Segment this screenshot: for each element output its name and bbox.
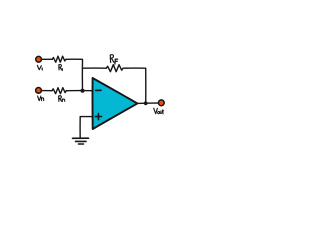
ground xyxy=(73,138,89,144)
resistor R1 xyxy=(52,56,66,62)
resistor label R1 xyxy=(59,65,63,71)
resistor Rn xyxy=(52,88,66,94)
wire plus input to ground xyxy=(80,117,93,138)
input terminal Vn xyxy=(36,88,42,94)
wire Rn to op-amp minus input xyxy=(66,90,92,92)
node label Vout xyxy=(154,108,164,114)
wire R1 to summing node vertical xyxy=(66,59,83,91)
resistor label Rn xyxy=(59,96,65,102)
op-amp minus pin mark xyxy=(96,89,101,91)
resistor RF xyxy=(106,65,123,72)
node label Vn xyxy=(38,96,44,101)
input terminal V1 xyxy=(36,56,42,62)
junction output node xyxy=(144,101,148,105)
node label V1 xyxy=(37,65,42,70)
junction summing node xyxy=(81,89,85,93)
feedback wire from summing node xyxy=(83,67,107,69)
wire RF to output node xyxy=(124,68,146,103)
op-amp U1 xyxy=(92,78,137,129)
output wire xyxy=(137,102,158,104)
resistor label RF xyxy=(110,55,118,64)
wire V1 to R1 xyxy=(42,58,52,60)
op-amp plus pin mark xyxy=(95,114,101,120)
output terminal Vout xyxy=(158,100,164,106)
wire Vn to Rn xyxy=(42,90,52,92)
